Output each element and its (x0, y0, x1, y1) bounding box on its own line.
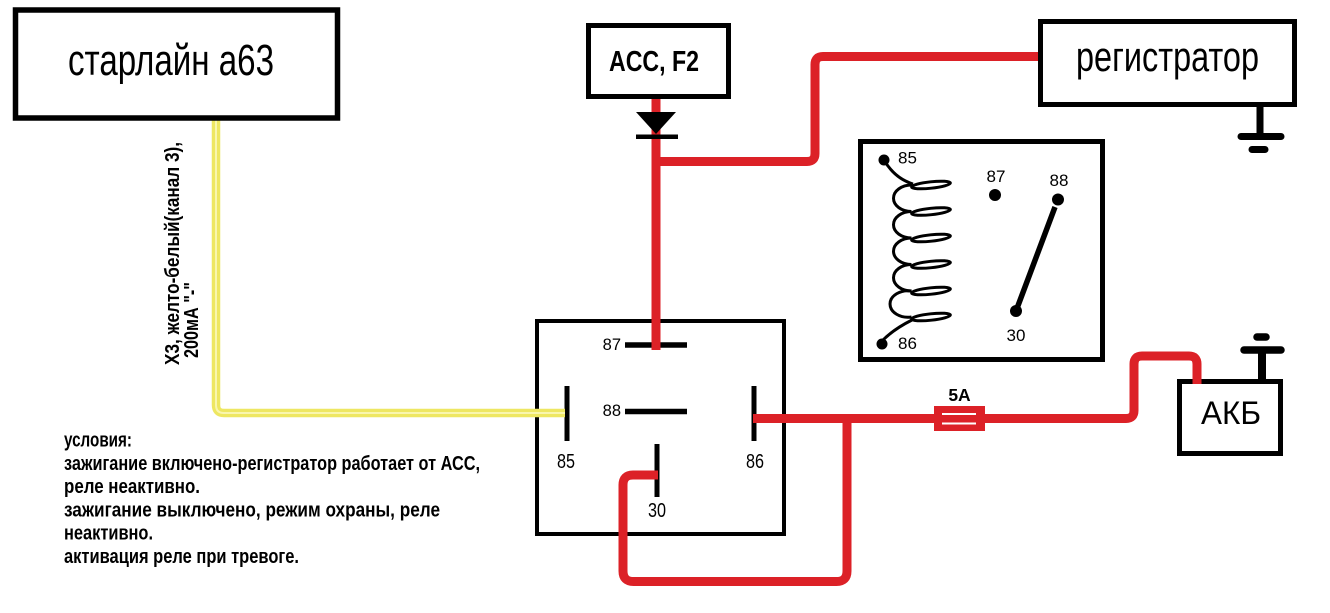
svg-text:30: 30 (1007, 326, 1026, 345)
svg-text:85: 85 (898, 149, 917, 168)
coil terminal 85 (879, 155, 890, 166)
svg-text:старлайн а63: старлайн а63 (68, 36, 274, 85)
box AKB (battery) (1180, 382, 1281, 454)
svg-text:88: 88 (1050, 171, 1069, 190)
wire: red pin 86 to AKB via fuse (753, 356, 1197, 419)
svg-text:87: 87 (603, 336, 621, 354)
svg-text:зажигание включено-регистратор: зажигание включено-регистратор работает … (64, 452, 480, 475)
svg-text:реле неактивно.: реле неактивно. (64, 475, 200, 498)
wire: red branch to registrator (656, 57, 1040, 162)
svg-text:87: 87 (987, 167, 1006, 186)
relay K1 body (537, 321, 784, 534)
svg-text:88: 88 (603, 402, 621, 420)
fuse FU1 5A (934, 406, 985, 431)
wire: red ACC to pin 87 (652, 92, 661, 350)
svg-text:5A: 5A (948, 385, 971, 405)
diode VD1 (636, 112, 676, 134)
coil L1 (884, 160, 913, 184)
svg-text:200мА "-": 200мА "-" (181, 282, 203, 358)
ground at AKB (1257, 333, 1266, 341)
wire: red loop pin 30 (623, 419, 847, 582)
coil terminal 86 (877, 339, 888, 350)
box ACC, F2 (589, 26, 729, 97)
pin 86 (752, 386, 757, 441)
box starline a63 (16, 10, 338, 118)
svg-text:регистратор: регистратор (1076, 33, 1259, 80)
svg-text:условия:: условия: (64, 429, 132, 452)
pin 30 (655, 444, 660, 497)
svg-text:зажигание выключено, режим охр: зажигание выключено, режим охраны, реле (64, 498, 440, 521)
relay internals box (861, 142, 1103, 360)
ground at registrator (1257, 105, 1264, 134)
svg-text:АКБ: АКБ (1201, 395, 1261, 431)
svg-text:активация реле при тревоге.: активация реле при тревоге. (64, 545, 299, 568)
svg-text:86: 86 (746, 451, 764, 473)
contact 30 with armature (1010, 305, 1022, 317)
svg-text:неактивно.: неактивно. (64, 522, 153, 545)
svg-text:30: 30 (648, 500, 666, 522)
wire: yellow from starline to pin 85 (216, 120, 565, 413)
svg-text:ACC, F2: ACC, F2 (609, 46, 699, 78)
pin 85 (565, 386, 570, 441)
pin 87 (625, 342, 687, 348)
pin 88 (625, 409, 687, 415)
box registrator (1041, 22, 1295, 105)
svg-text:85: 85 (557, 451, 575, 473)
svg-text:86: 86 (898, 334, 917, 353)
